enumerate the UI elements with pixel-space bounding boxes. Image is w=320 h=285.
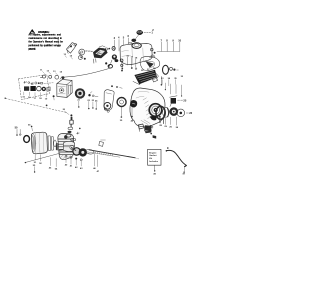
cylinder bottom leaders (50, 158, 56, 167)
crankcase hatch (60, 154, 71, 159)
tank filler ring (128, 42, 141, 48)
grommets under tank (108, 59, 123, 71)
throttle bracket cluster (86, 46, 110, 67)
small marks above reed (111, 85, 122, 88)
muffler label 50 (15, 126, 21, 136)
carb kit dashed box (19, 75, 50, 100)
flywheel rings (156, 106, 169, 119)
screws right of housing (159, 116, 165, 124)
choke knob (111, 54, 117, 63)
fuel tank (120, 44, 152, 65)
svg-text:personnel.: personnel. (29, 48, 36, 51)
small ring w stem (120, 59, 123, 69)
starter clamp parts (138, 124, 153, 129)
ignition module (170, 96, 187, 107)
shroud bracket small part (152, 76, 162, 85)
leaders top area above housing (165, 83, 181, 96)
muffler o-ring (24, 136, 30, 143)
clutch block (130, 100, 137, 117)
ring with bolt (79, 49, 92, 58)
small parts right of o-ring (170, 67, 179, 70)
muffler gaskets (48, 136, 56, 151)
piston (63, 142, 74, 152)
throttle cable (166, 150, 187, 176)
svg-text:Includes: Includes (149, 161, 159, 163)
leader 4 (118, 36, 120, 51)
leader 2 (114, 36, 116, 50)
stacked labels left (57, 39, 60, 47)
primer parts (101, 48, 110, 52)
washer disc (177, 109, 193, 117)
reed labels (120, 119, 134, 122)
labels above carb (64, 54, 73, 58)
number row above kit box (40, 70, 63, 74)
leaders under crank (66, 154, 98, 167)
long diagonal leader (25, 153, 60, 173)
svg-text:Kit: Kit (149, 157, 152, 160)
kit labels below (22, 97, 48, 101)
gasket kit label box (148, 149, 161, 175)
carburetor body (57, 77, 72, 98)
muffler top screw (28, 124, 32, 130)
crankshaft long (87, 150, 139, 159)
muffler body (31, 132, 47, 154)
kit leader dot (53, 95, 55, 100)
bolts under piston (65, 155, 82, 161)
washer stack above piston (71, 128, 81, 141)
cap retainer (131, 35, 138, 42)
fuel line to carb (41, 68, 110, 79)
cylinder (56, 133, 74, 159)
plug labels (77, 99, 98, 102)
leaders right of choke (127, 57, 135, 67)
throttle lever strip (66, 43, 76, 54)
grommet 5 (112, 47, 115, 51)
housing bottom foot (145, 131, 152, 135)
muffler bottom leaders (35, 154, 40, 161)
leader 6 (123, 36, 125, 48)
warning triangle (29, 29, 35, 34)
bracket leaders 7 8 9 10 (157, 42, 180, 51)
labels 33 34 35 (161, 77, 177, 80)
kit parts row2 (24, 86, 50, 91)
crank webs (59, 148, 87, 157)
spark plug (66, 114, 73, 137)
finned shield (140, 56, 160, 70)
fuel cap (137, 30, 143, 34)
airbox backplate (104, 90, 114, 111)
o-ring 33 (163, 65, 169, 74)
carb gasket disc (75, 88, 85, 98)
bracket part right of stack (99, 140, 106, 146)
svg-text:Gasket: Gasket (149, 154, 157, 157)
svg-text:Engine: Engine (149, 152, 157, 154)
tank right small parts (150, 48, 156, 58)
starter pulley (170, 107, 179, 116)
crank hook lever (86, 149, 94, 154)
housing lower part (153, 135, 157, 138)
warning text block (28, 31, 63, 51)
kit parts row1 (24, 81, 53, 84)
main housing (130, 88, 165, 132)
long dashed leader to spark plug (5, 98, 67, 112)
small bolts right of gasket (88, 92, 98, 97)
numbers above shield (141, 68, 156, 72)
reed circle (117, 98, 126, 118)
cap leader (144, 31, 151, 33)
leader bundle below flywheel (161, 117, 177, 125)
clamp parts 12 (78, 53, 85, 60)
